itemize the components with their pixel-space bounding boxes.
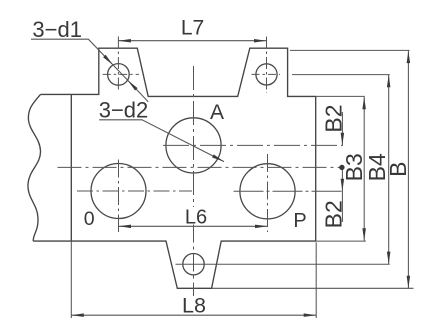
- hole d1 top-right: [256, 64, 277, 85]
- centerline top-left hole horizontal: [103, 73, 139, 75]
- dimension L8 line: [71, 314, 316, 316]
- svg-text:L6: L6: [185, 207, 207, 229]
- dimension B line: [407, 51, 409, 289]
- centerline top-right hole horizontal: [252, 73, 281, 75]
- centerline hole A horizontal (extends to B2 dim): [163, 144, 343, 146]
- break line (wavy left edge): [28, 94, 41, 241]
- dimension B4 line: [388, 75, 390, 264]
- svg-text:0: 0: [84, 208, 95, 230]
- extension line bottom edge to B3: [316, 240, 366, 242]
- plate outline: [33, 48, 316, 288]
- port hole P: [240, 164, 295, 219]
- junction dot on centerline: [339, 165, 344, 170]
- svg-text:L7: L7: [181, 17, 204, 40]
- port hole A: [166, 118, 221, 173]
- centerline bottom hole horizontal / B4 extension: [176, 263, 390, 265]
- centerline hole P horizontal (extends to B2 dim): [234, 190, 343, 192]
- centerline top-right hole vertical: [266, 37, 268, 94]
- extension line step edge to B3: [316, 95, 365, 97]
- dimension B2 lower line: [341, 167, 343, 222]
- svg-text:P: P: [293, 210, 306, 232]
- leader 3-d1 underline: [31, 39, 148, 101]
- leader 3-d2 underline and arrow through hole A: [99, 120, 224, 162]
- hole d1 top-left: [108, 64, 130, 86]
- main horizontal centerline: [58, 166, 342, 168]
- dimension L6 line: [119, 225, 268, 227]
- dimension B3 line: [363, 97, 365, 241]
- extension line right edge to L8: [315, 242, 317, 318]
- centerline hole A vertical upper: [193, 66, 195, 207]
- centerline hole A vertical lower: [193, 225, 195, 297]
- leader arrow into top-left hole: [103, 55, 113, 65]
- leader arrow at hole lower-right edge: [128, 80, 138, 90]
- svg-text:3−d2: 3−d2: [99, 97, 149, 122]
- hole d1 bottom: [183, 254, 204, 275]
- centerline hole 0 vertical: [118, 160, 120, 233]
- svg-text:3−d1: 3−d1: [32, 17, 82, 42]
- svg-text:L8: L8: [182, 293, 206, 317]
- svg-text:A: A: [210, 101, 224, 124]
- port hole 0: [91, 164, 146, 219]
- extension line tab bottom to B: [212, 287, 414, 289]
- dimension B2 upper line: [341, 112, 343, 145]
- centerline hole 0 horizontal: [77, 190, 192, 192]
- extension line top hole center to B4: [292, 74, 390, 76]
- centerline hole P vertical: [267, 154, 269, 232]
- svg-text:B2: B2: [321, 200, 347, 228]
- svg-text:B: B: [385, 162, 411, 177]
- extension line top edge to B: [290, 49, 410, 51]
- dimension L7 line: [118, 40, 266, 42]
- svg-text:B2: B2: [321, 104, 347, 132]
- left section edge / L8 extension line: [70, 94, 72, 241]
- centerline top-left hole vertical: [117, 37, 119, 92]
